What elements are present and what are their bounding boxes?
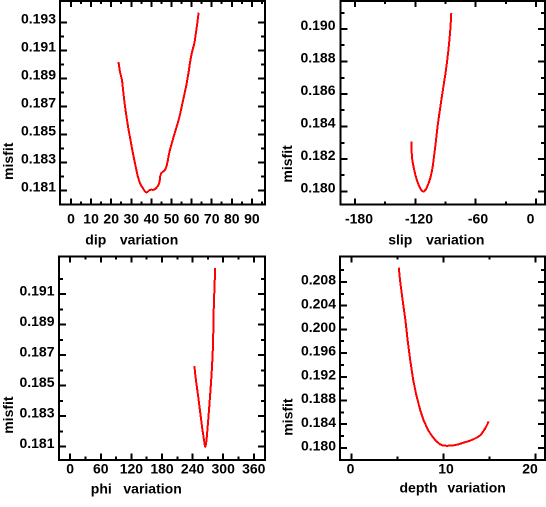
- svg-text:10: 10: [83, 211, 99, 227]
- svg-text:misfit: misfit: [279, 398, 295, 436]
- svg-text:80: 80: [224, 211, 240, 227]
- svg-text:dip: dip: [85, 232, 106, 248]
- svg-text:0.186: 0.186: [300, 82, 335, 98]
- svg-text:360: 360: [242, 461, 266, 477]
- svg-text:slip: slip: [388, 232, 412, 248]
- svg-text:phi: phi: [91, 480, 112, 496]
- svg-text:misfit: misfit: [0, 396, 16, 434]
- bottom-left (phi) x tick labels: [66, 461, 265, 477]
- svg-text:variation: variation: [120, 232, 178, 248]
- svg-text:0.187: 0.187: [21, 95, 56, 111]
- svg-text:-60: -60: [468, 211, 488, 227]
- svg-text:300: 300: [212, 461, 236, 477]
- bottom-left (phi) y ticks: [59, 279, 265, 447]
- top-right (slip) y ticks: [341, 13, 546, 192]
- svg-text:0.191: 0.191: [21, 39, 56, 55]
- svg-text:0.193: 0.193: [21, 11, 56, 27]
- svg-text:0.185: 0.185: [19, 374, 54, 390]
- svg-text:0: 0: [66, 461, 74, 477]
- svg-text:variation: variation: [426, 232, 484, 248]
- svg-text:0.184: 0.184: [300, 115, 335, 131]
- svg-text:variation: variation: [123, 480, 181, 496]
- svg-text:90: 90: [244, 211, 260, 227]
- svg-text:60: 60: [184, 211, 200, 227]
- svg-text:60: 60: [93, 461, 109, 477]
- svg-text:0.183: 0.183: [21, 151, 56, 167]
- svg-text:0.189: 0.189: [21, 67, 56, 83]
- svg-text:-120: -120: [405, 211, 433, 227]
- bottom-right (depth) x ticks: [352, 257, 536, 460]
- svg-text:240: 240: [181, 461, 205, 477]
- top-left (dip) y tick labels: [21, 11, 56, 195]
- svg-text:0.180: 0.180: [300, 180, 335, 196]
- svg-text:0: 0: [527, 211, 535, 227]
- bottom-right depth misfit curve (red data line): [399, 268, 489, 446]
- svg-text:0.187: 0.187: [19, 344, 54, 360]
- svg-text:30: 30: [124, 211, 140, 227]
- svg-text:-180: -180: [345, 211, 373, 227]
- svg-text:0.204: 0.204: [301, 295, 336, 311]
- svg-text:50: 50: [164, 211, 180, 227]
- svg-text:0.200: 0.200: [301, 319, 336, 335]
- svg-text:0.184: 0.184: [301, 414, 336, 430]
- top-right (slip) y tick labels: [300, 17, 335, 196]
- svg-text:120: 120: [120, 461, 144, 477]
- bottom-right (depth) y tick labels: [301, 272, 336, 454]
- svg-text:0.208: 0.208: [301, 272, 336, 288]
- svg-text:0.182: 0.182: [300, 147, 335, 163]
- svg-text:0.181: 0.181: [21, 179, 56, 195]
- svg-text:0.188: 0.188: [300, 50, 335, 66]
- svg-text:20: 20: [522, 461, 538, 477]
- bottom-left (phi) y tick labels: [19, 283, 54, 451]
- svg-text:70: 70: [204, 211, 220, 227]
- svg-text:0.180: 0.180: [301, 438, 336, 454]
- svg-text:misfit: misfit: [0, 142, 16, 180]
- svg-text:0.192: 0.192: [301, 366, 336, 382]
- svg-text:0: 0: [347, 461, 355, 477]
- svg-text:0: 0: [67, 211, 75, 227]
- svg-text:0.191: 0.191: [19, 283, 54, 299]
- top-left (dip) x tick labels: [67, 211, 260, 227]
- svg-text:0.181: 0.181: [19, 435, 54, 451]
- top-right (slip) x ticks: [355, 1, 536, 205]
- top-right (slip) plot frame: [340, 0, 546, 206]
- top-left (dip) y ticks: [60, 23, 265, 191]
- bottom-left (phi) x ticks: [70, 257, 254, 460]
- bottom-right (depth) x tick labels: [347, 461, 538, 477]
- svg-text:40: 40: [144, 211, 160, 227]
- bottom-left (phi) plot frame: [58, 256, 266, 461]
- svg-text:0.183: 0.183: [19, 405, 54, 421]
- top-right (slip) x tick labels: [345, 211, 535, 227]
- svg-text:20: 20: [103, 211, 119, 227]
- svg-text:misfit: misfit: [279, 145, 295, 183]
- svg-text:variation: variation: [448, 480, 506, 496]
- bottom-right (depth) y ticks: [340, 270, 545, 448]
- bottom-right (depth) plot frame: [339, 256, 546, 461]
- svg-text:10: 10: [438, 461, 454, 477]
- svg-text:depth: depth: [400, 480, 438, 496]
- svg-text:0.190: 0.190: [300, 17, 335, 33]
- svg-text:0.196: 0.196: [301, 343, 336, 359]
- svg-text:180: 180: [150, 461, 174, 477]
- bottom-left phi misfit curve (red data line): [194, 268, 215, 447]
- top-left (dip) plot frame: [59, 0, 266, 206]
- top-left (dip) x ticks: [71, 1, 262, 205]
- svg-text:0.189: 0.189: [19, 313, 54, 329]
- top-right slip misfit curve (red data line): [412, 13, 452, 192]
- top-left dip misfit curve (red data line): [119, 13, 199, 193]
- svg-text:0.188: 0.188: [301, 390, 336, 406]
- svg-text:0.185: 0.185: [21, 123, 56, 139]
